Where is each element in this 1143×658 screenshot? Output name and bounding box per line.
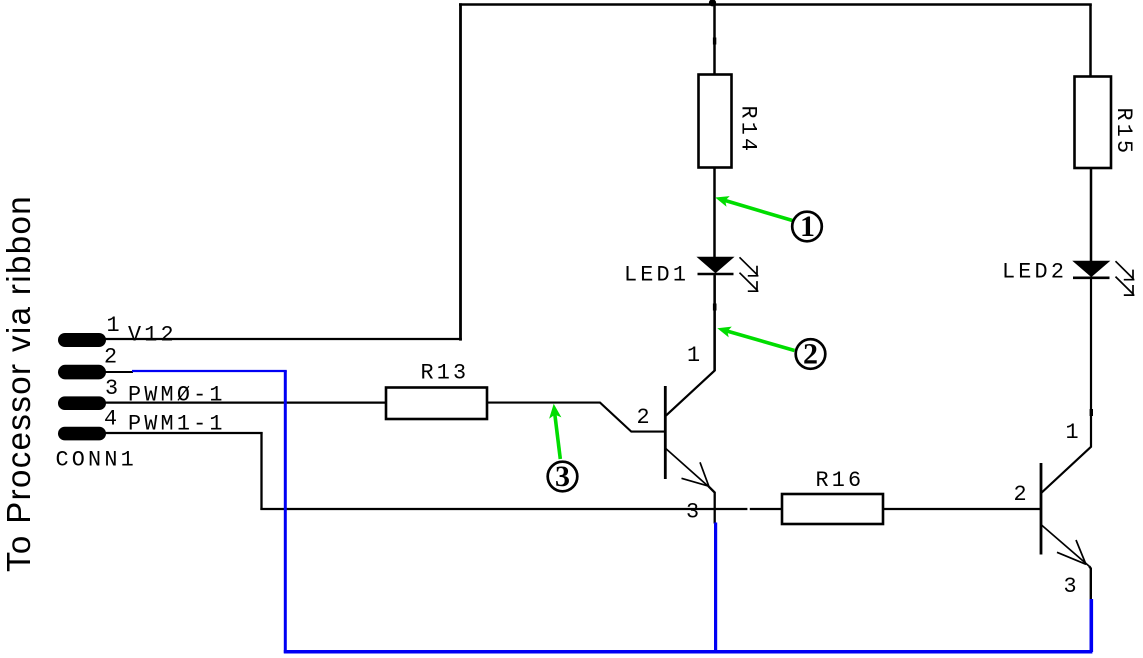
callout arrow 3: [555, 414, 561, 459]
wire LED1 to Q1 collector: [713, 275, 716, 371]
wire R14 to LED1: [713, 168, 716, 259]
svg-text:V12: V12: [128, 323, 177, 348]
svg-text:1: 1: [1066, 420, 1082, 445]
wire pin3 to R13: [105, 401, 387, 403]
callout arrow 1: [725, 200, 793, 220]
connector CONN1 pin 4 pad: [58, 427, 106, 441]
wire pin4 vertical drop: [260, 432, 262, 510]
svg-text:LED1: LED1: [624, 263, 689, 288]
LED2 light arrow upper: [1116, 261, 1135, 280]
transistor Q2 emitter diagonal: [1042, 525, 1090, 567]
resistor R13: [386, 388, 487, 420]
transistor Q2 base bar: [1040, 463, 1043, 555]
blue wire pin2 horizontal: [132, 370, 287, 372]
wire R15 top from rail: [1089, 5, 1092, 78]
connector CONN1 pin 1 pad: [58, 333, 106, 347]
LED LED1 triangle: [698, 257, 733, 272]
svg-text:R15: R15: [1111, 108, 1136, 157]
resistor R14: [699, 75, 732, 168]
svg-text:1: 1: [107, 313, 123, 338]
resistor R15: [1075, 77, 1112, 169]
resistor R16: [782, 494, 883, 524]
wire R14 top from rail: [713, 5, 716, 76]
svg-text:1: 1: [800, 210, 815, 243]
wire overlap blob below LED1: [713, 304, 717, 311]
wire emitter row horizontal right of gap: [750, 508, 783, 510]
wire Q1 emitter tail: [709, 486, 715, 523]
transistor Q1 collector diagonal: [666, 275, 715, 416]
svg-text:3: 3: [555, 460, 570, 493]
callout arrow 2: [727, 331, 795, 351]
svg-text:2: 2: [1014, 482, 1030, 507]
callout circle 3: [548, 462, 578, 492]
svg-text:R13: R13: [421, 361, 470, 386]
connector CONN1 pin 2 pad: [58, 365, 106, 380]
wire overlap blob on R14 feed: [713, 38, 716, 45]
svg-text:3: 3: [1064, 574, 1080, 599]
svg-text:3: 3: [105, 376, 121, 401]
wire Q2 emitter tail: [1089, 566, 1091, 600]
callout circle 1: [792, 212, 822, 242]
LED LED2 triangle: [1074, 261, 1109, 276]
svg-text:2: 2: [104, 345, 120, 370]
svg-text:2: 2: [637, 405, 653, 430]
callout circle 2: [796, 339, 826, 369]
wire emitter row horizontal left: [260, 508, 747, 510]
wire pin2 stub: [105, 371, 133, 373]
blue wire middle vertical: [714, 523, 717, 653]
svg-text:R16: R16: [816, 468, 865, 493]
svg-text:4: 4: [104, 407, 120, 432]
svg-text:R14: R14: [736, 106, 761, 155]
wire V12 rail to connector pin 1: [105, 338, 462, 340]
wire overlap blob above Q2 collector: [1090, 409, 1093, 416]
svg-text:To Processor via ribbon: To Processor via ribbon: [0, 195, 37, 572]
transistor Q2 emitter arrow barb B: [1057, 552, 1086, 564]
blue wire right vertical: [1090, 599, 1094, 652]
wire top rail: [459, 3, 1092, 6]
transistor Q1 base bar: [664, 386, 667, 479]
svg-text:2: 2: [803, 338, 818, 371]
transistor Q1 emitter diagonal: [666, 449, 709, 487]
transistor Q1 emitter arrow barb A: [700, 462, 709, 486]
svg-text:CONN1: CONN1: [56, 448, 137, 473]
LED2 light arrow lower: [1116, 277, 1135, 296]
transistor Q1 emitter arrow barb B: [682, 478, 709, 486]
wire left vertical drop: [459, 3, 462, 340]
wire R15 to LED2: [1090, 168, 1093, 262]
transistor Q2 collector diagonal: [1041, 278, 1091, 493]
wire R13 to Q1 base: [487, 403, 666, 432]
LED LED2 cathode bar: [1073, 276, 1110, 279]
transistor Q2 emitter arrow barb A: [1076, 540, 1086, 565]
blue wire bottom horizontal: [284, 650, 1093, 654]
svg-text:1: 1: [687, 343, 703, 368]
LED LED1 cathode bar: [698, 273, 734, 276]
LED1 light arrow upper: [740, 257, 759, 276]
connector CONN1 pin 3 pad: [58, 396, 106, 410]
svg-text:LED2: LED2: [1002, 260, 1067, 285]
wire R16 to Q2 base: [883, 508, 1041, 510]
svg-text:3: 3: [686, 500, 702, 525]
LED1 light arrow lower: [740, 273, 759, 292]
blue wire left vertical: [284, 371, 287, 654]
wire pin4 horizontal: [105, 432, 263, 434]
node junction dot: [709, 0, 716, 6]
